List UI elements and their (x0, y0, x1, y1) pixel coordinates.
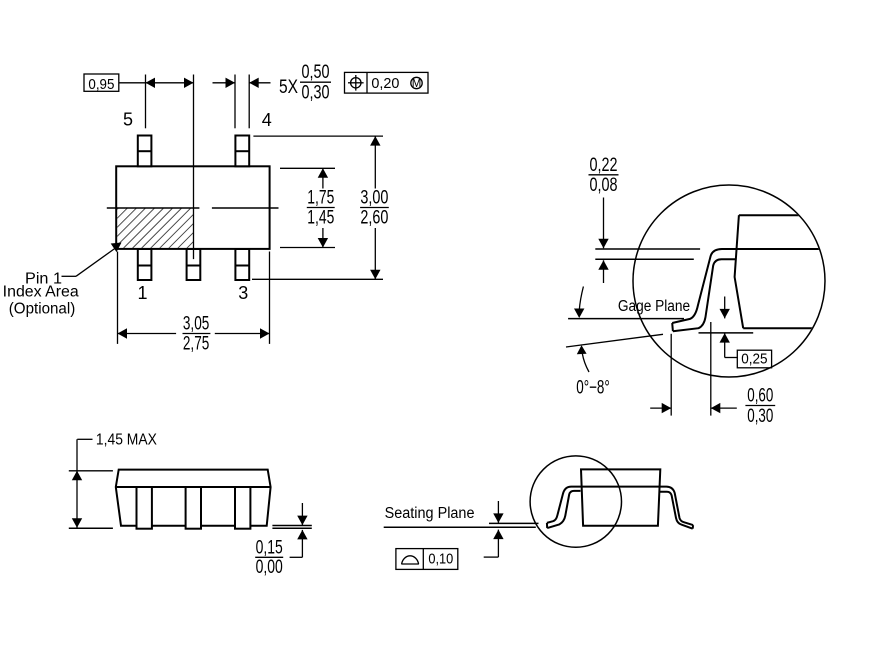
svg-text:5: 5 (123, 109, 133, 129)
svg-text:3,00: 3,00 (360, 188, 388, 209)
svg-text:0,60: 0,60 (747, 386, 773, 407)
svg-text:3: 3 (238, 283, 248, 303)
svg-text:2,75: 2,75 (183, 334, 209, 355)
svg-text:0,10: 0,10 (428, 550, 453, 567)
svg-text:Gage Plane: Gage Plane (618, 298, 690, 315)
svg-text:Seating Plane: Seating Plane (385, 505, 475, 522)
svg-text:0,30: 0,30 (747, 406, 773, 427)
svg-text:(Optional): (Optional) (9, 301, 76, 318)
svg-text:0,00: 0,00 (256, 557, 283, 578)
svg-text:1,45 MAX: 1,45 MAX (96, 431, 158, 448)
svg-text:1,45: 1,45 (307, 208, 334, 229)
svg-text:5X: 5X (279, 77, 298, 98)
svg-text:1,75: 1,75 (307, 188, 334, 209)
svg-text:0,20: 0,20 (371, 75, 399, 92)
svg-text:0,15: 0,15 (256, 537, 283, 558)
svg-text:0,22: 0,22 (590, 155, 618, 176)
svg-text:0,50: 0,50 (302, 62, 330, 83)
svg-text:Index Area: Index Area (3, 284, 79, 301)
svg-text:0,25: 0,25 (741, 350, 767, 367)
svg-text:2,60: 2,60 (360, 208, 388, 229)
svg-text:4: 4 (262, 110, 272, 130)
svg-text:0,08: 0,08 (590, 175, 618, 196)
svg-text:M: M (412, 78, 422, 90)
svg-text:0,95: 0,95 (88, 76, 114, 93)
svg-text:3,05: 3,05 (183, 314, 209, 335)
svg-text:0°−8°: 0°−8° (576, 377, 610, 398)
svg-text:1: 1 (137, 283, 147, 303)
svg-text:0,30: 0,30 (302, 82, 330, 103)
